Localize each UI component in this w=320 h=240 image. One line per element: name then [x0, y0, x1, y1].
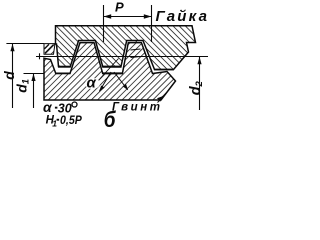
svg-text:1: 1 — [52, 118, 57, 128]
svg-text:α: α — [43, 99, 53, 115]
svg-text:d: d — [1, 71, 17, 80]
svg-text:Гвинт: Гвинт — [112, 102, 163, 114]
svg-text:Гайка: Гайка — [156, 8, 209, 25]
svg-text:α: α — [87, 75, 97, 92]
svg-text:30: 30 — [58, 102, 72, 116]
svg-text:P: P — [115, 0, 124, 15]
svg-text:0,5P: 0,5P — [60, 115, 82, 127]
svg-text:б: б — [104, 108, 117, 131]
